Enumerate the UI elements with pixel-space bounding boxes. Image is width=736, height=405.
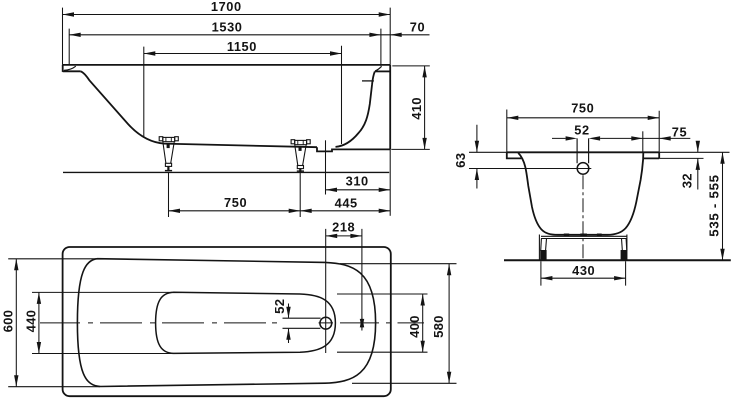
svg-text:1530: 1530: [212, 20, 243, 35]
svg-text:63: 63: [453, 153, 468, 168]
svg-text:600: 600: [1, 310, 16, 333]
svg-text:1150: 1150: [227, 39, 257, 54]
svg-text:430: 430: [572, 263, 595, 278]
svg-text:580: 580: [431, 315, 446, 338]
svg-text:535 - 555: 535 - 555: [706, 174, 721, 236]
svg-text:32: 32: [680, 173, 695, 188]
svg-text:410: 410: [409, 97, 424, 120]
svg-text:1700: 1700: [211, 0, 242, 14]
svg-text:445: 445: [335, 195, 358, 210]
svg-text:52: 52: [574, 123, 589, 138]
svg-text:52: 52: [272, 299, 287, 314]
svg-text:750: 750: [224, 195, 247, 210]
svg-text:750: 750: [571, 101, 594, 116]
svg-text:70: 70: [410, 20, 425, 35]
svg-text:400: 400: [407, 315, 422, 338]
svg-text:440: 440: [23, 310, 38, 333]
svg-text:218: 218: [332, 220, 355, 235]
svg-text:310: 310: [346, 173, 369, 188]
svg-text:75: 75: [672, 125, 687, 140]
